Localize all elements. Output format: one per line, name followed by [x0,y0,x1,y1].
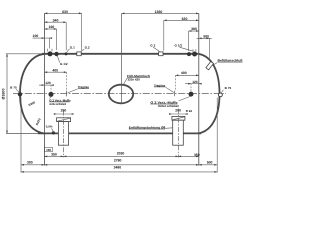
svg-text:3480: 3480 [114,166,122,170]
svg-text:380: 380 [191,27,197,31]
svg-text:500: 500 [207,161,213,165]
svg-text:2030: 2030 [117,152,125,156]
svg-text:300: 300 [27,161,33,165]
svg-text:hinten schieben: hinten schieben [158,104,179,108]
svg-text:G 2: G 2 [150,43,155,47]
svg-text:120: 120 [45,81,51,85]
svg-text:B 75: B 75 [225,86,232,90]
svg-text:340: 340 [53,19,59,23]
svg-text:G 1/2: G 1/2 [60,62,68,66]
svg-text:G.2: G.2 [85,46,90,50]
svg-text:Ø1600: Ø1600 [2,88,6,99]
svg-text:100: 100 [33,34,39,38]
svg-text:320x 420: 320x 420 [128,78,141,82]
svg-text:120: 120 [192,80,198,84]
svg-text:350: 350 [194,153,200,157]
svg-text:150: 150 [46,148,51,152]
svg-text:630: 630 [182,17,188,21]
svg-text:G.1: G.1 [70,45,75,49]
svg-text:400: 400 [181,71,187,75]
svg-text:350: 350 [51,153,57,157]
svg-text:630: 630 [62,10,68,14]
svg-text:1360: 1360 [155,10,163,14]
svg-text:B 75: B 75 [10,86,17,90]
svg-text:500: 500 [203,34,209,38]
svg-text:400: 400 [52,69,58,73]
svg-text:R 24: R 24 [186,109,192,113]
svg-text:G 1/2: G 1/2 [175,43,183,47]
svg-text:160: 160 [49,25,55,29]
svg-text:vorne schieben: vorne schieben [49,102,66,106]
svg-text:2780: 2780 [114,159,122,163]
svg-text:0,5%: 0,5% [46,125,53,129]
